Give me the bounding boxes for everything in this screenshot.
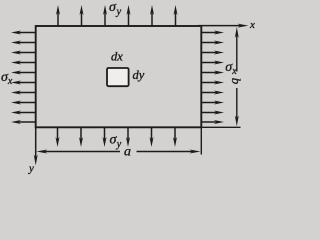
svg-text:dx: dx — [111, 50, 123, 64]
bottom sigma_y arrow 1 — [56, 127, 60, 147]
left sigma_x arrow 3 — [11, 51, 36, 55]
left sigma_x arrow 8 — [11, 101, 36, 105]
differential element dx-dy square — [107, 68, 129, 86]
bottom sigma_y arrow 2 — [79, 127, 83, 147]
right sigma_x arrow 5 — [201, 71, 224, 75]
dimension line a right part — [137, 150, 201, 154]
left sigma_x arrow 4 — [11, 61, 36, 65]
svg-text:x: x — [249, 19, 255, 31]
left sigma_x arrow 7 — [11, 91, 36, 95]
svg-text:b: b — [229, 78, 244, 85]
left sigma_x arrow 1 — [11, 31, 36, 35]
bottom sigma_y arrow 6 — [173, 127, 177, 147]
bottom sigma_y arrow 5 — [150, 127, 154, 147]
top sigma_y arrow 4 — [127, 5, 131, 26]
top sigma_y arrow 5 — [150, 5, 154, 26]
right sigma_x arrow 9 — [201, 111, 224, 115]
top sigma_y arrow 3 — [103, 5, 107, 26]
y-axis — [34, 125, 38, 165]
svg-text:dy: dy — [133, 68, 145, 82]
right sigma_x arrow 8 — [201, 101, 224, 105]
bottom sigma_y arrow 3 — [103, 127, 107, 147]
bottom sigma_y arrow 4 — [126, 127, 130, 147]
top sigma_y arrow 6 — [174, 5, 178, 26]
extension line for a (right edge extended down) — [200, 127, 202, 154]
dimension line b upper part — [235, 27, 239, 72]
right sigma_x arrow 4 — [201, 61, 224, 65]
top sigma_y arrow 1 — [56, 5, 60, 26]
left sigma_x arrow 2 — [11, 41, 36, 45]
right sigma_x arrow 2 — [201, 41, 224, 45]
right sigma_x arrow 7 — [201, 91, 224, 95]
right sigma_x arrow 6 — [201, 81, 224, 85]
extension line for b (bottom edge extended right) — [201, 126, 240, 128]
x-axis — [198, 24, 248, 28]
dimension line b lower part — [235, 88, 239, 126]
plate outline — [36, 26, 202, 127]
dimension line a left part — [36, 150, 120, 154]
svg-text:y: y — [28, 163, 34, 175]
right sigma_x arrow 10 — [201, 120, 224, 124]
left sigma_x arrow 9 — [11, 111, 36, 115]
left sigma_x arrow 5 — [11, 71, 36, 75]
top sigma_y arrow 2 — [80, 5, 84, 26]
svg-text:a: a — [124, 144, 131, 159]
left sigma_x arrow 6 — [11, 81, 36, 85]
left sigma_x arrow 10 — [11, 120, 36, 124]
right sigma_x arrow 1 — [201, 31, 224, 35]
right sigma_x arrow 3 — [201, 51, 224, 55]
